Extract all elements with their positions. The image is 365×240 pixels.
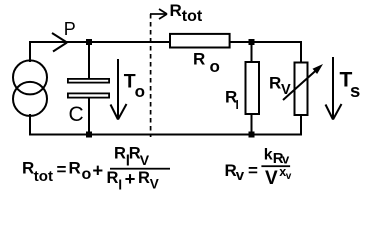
- svg-text:R: R: [69, 159, 81, 178]
- svg-text:V: V: [140, 152, 150, 168]
- arrow Ts: [326, 57, 342, 120]
- current source I1: [13, 60, 47, 116]
- svg-text:l: l: [118, 176, 122, 192]
- svg-text:k: k: [264, 146, 273, 163]
- svg-text:+: +: [92, 160, 103, 181]
- svg-text:=: =: [248, 161, 258, 180]
- capacitor C plates: [68, 79, 109, 83]
- variable resistor arrow: [283, 70, 317, 101]
- svg-text:R: R: [138, 169, 150, 187]
- dashed section line: [150, 14, 152, 137]
- wire top right horizontal: [230, 41, 302, 43]
- formula left: Rtot = Ro + RlRv/(Rl+Rv): [22, 144, 170, 192]
- arrow To: [111, 59, 127, 120]
- resistor Rl box: [246, 62, 260, 114]
- resistor Ro box: [170, 34, 230, 48]
- wire capacitor top: [88, 42, 90, 78]
- junction dot bottom Rl: [249, 132, 255, 138]
- svg-text:tot: tot: [182, 8, 203, 25]
- svg-text:v: v: [286, 171, 292, 182]
- arrow P on wire: [52, 33, 67, 52]
- svg-text:C: C: [69, 103, 84, 126]
- wire Rl top: [251, 42, 253, 62]
- svg-text:o: o: [135, 82, 145, 101]
- wire Rv bottom: [300, 115, 302, 136]
- wire Rv top: [300, 41, 302, 62]
- wire capacitor bottom: [88, 99, 90, 136]
- svg-text:=: =: [57, 160, 67, 179]
- svg-text:V: V: [150, 177, 159, 192]
- svg-text:+: +: [125, 168, 136, 189]
- wire Rl bottom: [251, 114, 253, 135]
- wire left vertical top: [29, 41, 31, 62]
- svg-text:tot: tot: [34, 168, 53, 185]
- svg-text:o: o: [210, 57, 220, 76]
- dashed line top arrow: [150, 9, 167, 19]
- formula right: Rv = kRv / V^xv: [225, 146, 292, 189]
- wire bottom horizontal: [29, 134, 302, 136]
- junction dot bottom capacitor: [86, 132, 92, 138]
- svg-text:R: R: [269, 73, 281, 92]
- svg-text:R: R: [114, 144, 126, 162]
- svg-text:R: R: [170, 1, 182, 20]
- junction dot top Rl: [249, 39, 255, 45]
- svg-text:R: R: [193, 50, 205, 69]
- svg-text:o: o: [82, 166, 92, 183]
- svg-text:s: s: [350, 80, 360, 101]
- wire top left horizontal: [29, 41, 170, 43]
- svg-text:V: V: [265, 168, 278, 189]
- svg-text:R: R: [22, 159, 34, 178]
- svg-text:V: V: [281, 82, 291, 98]
- junction dot top capacitor: [86, 39, 92, 45]
- svg-text:v: v: [236, 167, 245, 184]
- svg-text:R: R: [107, 169, 119, 187]
- wire left vertical bottom: [29, 114, 31, 136]
- svg-text:l: l: [236, 98, 239, 112]
- svg-text:P: P: [64, 19, 76, 39]
- resistor Rv box: [295, 63, 308, 116]
